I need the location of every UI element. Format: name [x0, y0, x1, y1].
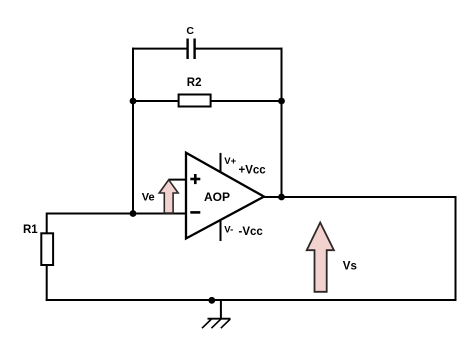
svg-text:V+: V+ [224, 156, 236, 167]
ground symbol [202, 319, 231, 329]
op-amp plus input symbol [190, 174, 200, 184]
wire inverting input (main left horizontal) [47, 213, 187, 215]
op-amp minus input symbol [190, 211, 200, 214]
wire left rail upper [46, 213, 48, 234]
wire left rail lower [46, 265, 48, 301]
resistor R2 [179, 95, 211, 107]
wire right rail [455, 196, 457, 301]
svg-text:R2: R2 [187, 77, 202, 89]
wire output [263, 196, 457, 198]
junction node ground [208, 297, 215, 304]
op-amp U1 AOP [186, 153, 264, 239]
svg-text:Vs: Vs [343, 260, 357, 272]
ground stub wire [220, 300, 222, 319]
wire top-left (node to capacitor) [132, 48, 187, 50]
pin V- [220, 220, 222, 242]
wire top-right (capacitor to right loop) [196, 48, 283, 50]
wire R2 left segment [133, 100, 179, 102]
svg-text:+Vcc: +Vcc [239, 165, 267, 177]
capacitor C [188, 39, 195, 60]
voltage arrow Vs [307, 223, 334, 292]
svg-text:AOP: AOP [204, 190, 230, 204]
wire right loop vertical [281, 48, 283, 197]
pin V+ [220, 153, 222, 172]
wire left loop vertical [132, 48, 134, 215]
svg-text:Ve: Ve [142, 191, 155, 203]
junction node output [278, 194, 285, 201]
junction node inverting input [130, 210, 137, 217]
resistor R1 [41, 233, 53, 265]
wire bottom rail [46, 299, 457, 301]
svg-text:R1: R1 [23, 224, 38, 236]
wire non-inverting input [169, 179, 187, 181]
svg-text:-Vcc: -Vcc [239, 226, 264, 238]
wire R2 right segment [211, 100, 282, 102]
voltage arrow Ve [159, 180, 178, 213]
svg-text:V-: V- [224, 224, 233, 235]
junction node R2 left [130, 98, 137, 105]
junction node R2 right [278, 98, 285, 105]
svg-text:C: C [186, 25, 194, 37]
